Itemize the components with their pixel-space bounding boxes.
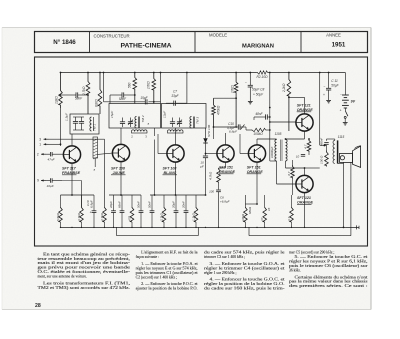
svg-text:SFT 151: SFT 151	[247, 165, 261, 169]
svg-text:JAUNE: JAUNE	[113, 171, 126, 175]
svg-text:−: −	[324, 85, 326, 89]
svg-text:+: +	[340, 109, 342, 113]
svg-text:68nF: 68nF	[118, 201, 122, 208]
svg-text:17kΩ: 17kΩ	[231, 85, 235, 93]
svg-text:6,8µF: 6,8µF	[90, 200, 94, 208]
svg-text:ANNEE: ANNEE	[326, 32, 341, 37]
svg-text:470kΩ: 470kΩ	[216, 105, 220, 115]
svg-text:15pF: 15pF	[140, 96, 148, 100]
svg-text:SFT 121: SFT 121	[297, 196, 311, 200]
svg-text:1. — Enfoncer la touche P.O.A.: 1. — Enfoncer la touche P.O.A. et	[141, 262, 199, 266]
svg-text:ajuster la position de la bobi: ajuster la position de la bobine P.O.	[136, 287, 198, 291]
svg-text:C2 (accord) sur 1 400 kHz ;: C2 (accord) sur 1 400 kHz ;	[136, 275, 178, 279]
svg-text:1951: 1951	[332, 41, 346, 48]
svg-text:16: 16	[267, 207, 271, 211]
svg-text:En tant que schéma général ce: En tant que schéma général ce récep-	[43, 252, 131, 256]
svg-text:50nF: 50nF	[137, 201, 141, 208]
svg-text:pas la même valeur dans les ch: pas la même valeur dans les châssis	[289, 280, 368, 284]
svg-text:47nF: 47nF	[48, 158, 56, 162]
svg-text:ges prévu pour recevoir une ba: ges prévu pour recevoir une bande	[38, 266, 131, 270]
svg-text:TM 2: TM 2	[141, 115, 145, 122]
svg-text:50nF: 50nF	[148, 201, 152, 208]
svg-text:CONSTRUCTEUR: CONSTRUCTEUR	[94, 34, 130, 39]
svg-text:9V: 9V	[351, 100, 356, 104]
svg-text:9: 9	[37, 179, 39, 183]
svg-text:82kΩ: 82kΩ	[94, 99, 98, 107]
svg-text:3: 3	[39, 137, 41, 141]
svg-text:4,7kΩ: 4,7kΩ	[209, 171, 213, 180]
svg-text:+6,8µF: +6,8µF	[220, 200, 230, 204]
svg-text:480nF: 480nF	[319, 138, 323, 146]
svg-text:mais il est muni d'un jeu de b: mais il est muni d'un jeu de bobina-	[38, 261, 132, 265]
svg-text:1,5µF: 1,5µF	[65, 112, 69, 121]
svg-text:C 11: C 11	[331, 79, 338, 83]
svg-text:28: 28	[35, 303, 41, 309]
svg-text:17kΩ: 17kΩ	[147, 81, 151, 89]
svg-text:68kΩ: 68kΩ	[248, 206, 252, 214]
svg-text:20nF: 20nF	[182, 201, 186, 209]
svg-text:33pF: 33pF	[171, 94, 179, 98]
svg-text:1: 1	[39, 143, 41, 147]
svg-text:4,7: 4,7	[287, 171, 291, 176]
svg-text:2,7kΩ: 2,7kΩ	[82, 86, 86, 96]
svg-text:5,6kΩ: 5,6kΩ	[56, 212, 60, 221]
svg-text:100 Ω: 100 Ω	[320, 155, 324, 164]
svg-text:12kΩ: 12kΩ	[54, 96, 58, 104]
svg-text:5. — Enfoncer la touche G.C. e: 5. — Enfoncer la touche G.C. et	[295, 255, 369, 259]
svg-text:47: 47	[260, 217, 264, 221]
svg-text:470: 470	[128, 216, 132, 221]
svg-text:58nF: 58nF	[119, 97, 127, 101]
svg-text:TM 3: TM 3	[196, 117, 200, 124]
svg-text:12µF: 12µF	[162, 110, 166, 118]
svg-text:4,7kΩ: 4,7kΩ	[77, 212, 81, 221]
svg-text:puis les trimmers C1 (oscillat: puis les trimmers C1 (oscillateur) et	[136, 271, 199, 275]
svg-text:+: +	[323, 93, 325, 97]
svg-text:4,7: 4,7	[287, 216, 291, 221]
svg-text:1,2kΩ: 1,2kΩ	[192, 212, 196, 221]
svg-text:régler le trimmer C4 (oscillat: régler le trimmer C4 (oscillateur) et	[204, 266, 286, 270]
svg-text:SFT 117: SFT 117	[62, 166, 77, 170]
svg-text:C7: C7	[173, 89, 177, 93]
svg-text:façon suivante :: façon suivante :	[136, 255, 160, 259]
svg-text:50µF: 50µF	[331, 84, 339, 88]
svg-text:+: +	[90, 211, 92, 215]
svg-text:L'alignement en H.F. se fait d: L'alignement en H.F. se fait de la	[141, 251, 198, 255]
svg-text:36 kHz.: 36 kHz.	[289, 268, 301, 272]
svg-text:SFT 151: SFT 151	[219, 165, 233, 169]
svg-text:2,7kΩ: 2,7kΩ	[160, 212, 164, 222]
svg-text:MODELE: MODELE	[209, 32, 227, 37]
svg-text:trimmer C3 sur 1 400 kHz ;: trimmer C3 sur 1 400 kHz ;	[204, 255, 245, 259]
svg-text:58nF: 58nF	[75, 97, 83, 101]
svg-text:puis le trimmer C6 (oscillateu: puis le trimmer C6 (oscillateur) sur	[289, 264, 369, 268]
svg-text:PATHE-CINEMA: PATHE-CINEMA	[120, 43, 171, 50]
svg-text:mer C5 (accord) sur 290 kHz ;: mer C5 (accord) sur 290 kHz ;	[289, 251, 334, 255]
svg-text:10µF: 10µF	[47, 184, 55, 188]
svg-text:20µF: 20µF	[172, 201, 176, 209]
svg-text:STD 106: STD 106	[207, 125, 211, 137]
svg-text:ORANGE: ORANGE	[297, 200, 314, 204]
svg-text:20µF: 20µF	[109, 201, 113, 209]
svg-text:SFT 108: SFT 108	[111, 166, 126, 170]
svg-text:C10: C10	[228, 122, 234, 126]
svg-text:ORANGE: ORANGE	[219, 170, 236, 174]
svg-text:48nF: 48nF	[255, 112, 263, 116]
svg-text:régler 1 sur 290 kHz ;: régler 1 sur 290 kHz ;	[204, 271, 237, 275]
svg-text:3. — Enfoncer la touche G.O.A.: 3. — Enfoncer la touche G.O.A. et	[210, 262, 286, 266]
svg-text:2,7kΩ: 2,7kΩ	[100, 212, 104, 222]
svg-text:R2-10Ω: R2-10Ω	[256, 75, 268, 79]
svg-text:régler la position de la bobin: régler la position de la bobine G.O.	[204, 282, 285, 286]
svg-text:2,2kΩ: 2,2kΩ	[282, 83, 286, 93]
svg-text:2. — Enfoncer la touche P.O.C.: 2. — Enfoncer la touche P.O.C. et	[141, 282, 199, 286]
svg-text:10: 10	[296, 155, 300, 159]
svg-text:ORANGE: ORANGE	[297, 108, 314, 112]
svg-text:TM 1: TM 1	[92, 124, 96, 131]
svg-text:10kΩ: 10kΩ	[241, 213, 245, 221]
svg-text:MARIGNAN: MARIGNAN	[242, 43, 274, 49]
svg-text:4. — Enfoncer la touche G.O.C.: 4. — Enfoncer la touche G.O.C. et	[210, 278, 286, 282]
svg-text:2: 2	[37, 152, 39, 156]
svg-text:50µF C8: 50µF C8	[252, 88, 264, 92]
svg-text:−: −	[245, 81, 247, 85]
svg-text:100: 100	[209, 190, 214, 194]
svg-text:1115: 1115	[338, 135, 345, 139]
svg-text:10000pF: 10000pF	[270, 146, 274, 158]
svg-text:N° 1846: N° 1846	[53, 39, 76, 46]
svg-text:C10: C10	[86, 200, 90, 206]
svg-text:3,3µF: 3,3µF	[227, 126, 236, 130]
svg-text:+ 50µF: + 50µF	[253, 93, 264, 97]
svg-text:FRAMBSE: FRAMBSE	[62, 171, 81, 175]
svg-text:TM2 et TM3) sont accordés sur: TM2 et TM3) sont accordés sur 472 kHz.	[38, 286, 131, 290]
svg-text:4,7: 4,7	[304, 144, 308, 149]
svg-text:560: 560	[128, 82, 132, 88]
svg-text:BLANC: BLANC	[164, 171, 177, 175]
svg-text:des premières séries. Ce sont: des premières séries. Ce sont :	[289, 284, 368, 288]
svg-text:Certains éléments du schéma n': Certains éléments du schéma n'ont	[295, 275, 369, 279]
svg-text:100kΩ: 100kΩ	[253, 132, 263, 136]
svg-text:1105: 1105	[275, 132, 282, 136]
svg-text:15µF: 15µF	[110, 110, 114, 118]
svg-text:SFT 121: SFT 121	[297, 103, 311, 107]
svg-text:ORANGE: ORANGE	[247, 170, 264, 174]
svg-text:−: −	[340, 93, 342, 97]
